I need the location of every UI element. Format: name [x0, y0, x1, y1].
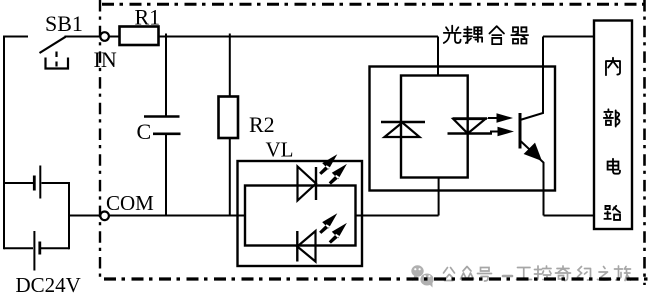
watermark separator dash — [503, 275, 512, 278]
wire opto LED top feed — [437, 37, 439, 77]
svg-text:SB1: SB1 — [45, 11, 83, 36]
wire VL to optocoupler return — [356, 215, 439, 217]
phototransistor collector — [520, 37, 543, 121]
dash-dot module border top — [102, 3, 646, 6]
watermark text 公众号 — [444, 266, 631, 281]
svg-text:IN: IN — [94, 47, 117, 72]
wire left rail — [3, 36, 5, 250]
opto right diode (down) — [453, 117, 488, 119]
wire emitter to internal circuit — [544, 215, 595, 217]
phototransistor Q1 base bar — [519, 113, 522, 149]
battery bottom branch wires — [4, 247, 69, 249]
watermark text 工控奇幻之旅 — [517, 268, 532, 280]
capacitor C plates — [144, 117, 181, 134]
dash-dot module border left — [99, 0, 101, 277]
optocoupler U1 outer box — [370, 67, 556, 191]
LED VL top diode — [298, 167, 317, 201]
emitter arrow — [524, 143, 542, 161]
wire C branch upper — [165, 34, 167, 117]
svg-text:DC24V: DC24V — [16, 273, 81, 297]
svg-text:VL: VL — [266, 138, 294, 162]
resistor R2 — [219, 97, 239, 139]
LED block VL outer box — [238, 161, 363, 266]
switch SB1 push-button actuator — [46, 58, 69, 69]
svg-text:C: C — [137, 119, 152, 144]
switch SB1 blade — [40, 37, 66, 53]
LED block VL inner loop — [245, 186, 356, 246]
wire IN node to R1 — [109, 36, 120, 38]
svg-text:COM: COM — [106, 191, 154, 215]
svg-text:R1: R1 — [135, 5, 161, 30]
battery top branch wires — [4, 182, 69, 184]
node COM circle — [100, 212, 109, 221]
wire top rail — [159, 36, 439, 38]
svg-text:R2: R2 — [249, 112, 275, 137]
LED VL top emission arrows — [319, 154, 347, 184]
dash-dot module border right — [643, 0, 646, 285]
wire opto LED bottom drop — [438, 178, 440, 216]
node IN circle — [100, 32, 109, 41]
LED VL bottom diode — [297, 231, 315, 262]
wire collector to internal circuit — [543, 36, 594, 38]
opto light arrows — [488, 118, 498, 132]
battery bottom cell plates — [33, 231, 35, 271]
wire R2 branch upper — [229, 34, 231, 97]
LED VL bottom emission arrows — [319, 213, 347, 243]
watermark wechat logo — [411, 265, 433, 287]
label 光耦合器 (optocoupler) hand-drawn strokes — [444, 26, 528, 44]
wire COM rail to VL — [109, 215, 245, 217]
battery top cell plates — [33, 176, 36, 191]
wire C branch lower — [165, 134, 167, 216]
battery loop right edge — [68, 182, 70, 249]
wire R2 branch lower — [229, 138, 231, 216]
label 内部电路 (internal circuit) hand-drawn strokes — [604, 58, 620, 220]
wire SB1 feed — [3, 36, 28, 38]
resistor R1 — [120, 27, 159, 46]
wire SB1 to IN node — [65, 36, 101, 38]
optocoupler inner LED loop — [401, 76, 468, 178]
wire COM stub battery to node — [69, 215, 101, 217]
opto left diode (up) — [381, 121, 425, 123]
phototransistor emitter — [520, 141, 544, 216]
dash-dot module border bottom — [104, 277, 648, 280]
internal circuit box — [594, 21, 632, 230]
